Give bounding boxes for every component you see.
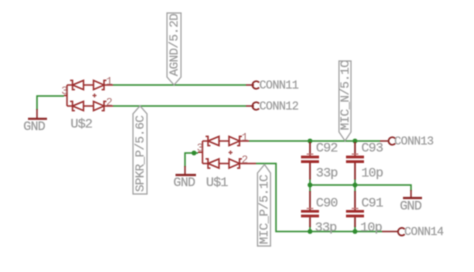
diode array U$2: [64, 80, 113, 110]
svg-text:U$1: U$1: [206, 175, 228, 190]
capacitor C93: [346, 140, 384, 180]
connector pin CONN13: [380, 135, 434, 149]
node junction on U$1 GND wire: [192, 151, 197, 156]
svg-text:10p: 10p: [360, 220, 382, 235]
wire net MIC_N (U$1 pin1 to CONN13): [249, 140, 380, 142]
ground symbol GND (right): [400, 190, 422, 213]
wire cap column C91 stubs: [354, 185, 356, 192]
svg-text:GND: GND: [173, 175, 195, 190]
wire U$1 pin2 red extension: [249, 163, 256, 165]
svg-text:C92: C92: [316, 140, 338, 155]
svg-text:GND: GND: [23, 119, 45, 134]
svg-text:C91: C91: [361, 195, 383, 210]
node junction C93 bottom: [353, 183, 358, 188]
wire cap column C93 stub: [354, 179, 356, 185]
ground symbol GND (U$2): [23, 109, 47, 134]
net flag SPKR_P/5.6C: [133, 106, 147, 194]
svg-text:MIC_P/5.1C: MIC_P/5.1C: [257, 175, 271, 244]
svg-text:3: 3: [61, 86, 68, 98]
node junction C90 bottom: [308, 229, 313, 234]
svg-text:1: 1: [106, 77, 113, 89]
net flag MIC_N/5.1C: [338, 61, 352, 141]
capacitor C91: [346, 191, 384, 235]
node junction C91 bottom: [353, 229, 358, 234]
node junction C92 top: [308, 139, 313, 144]
net flag AGND/5.2D: [167, 13, 181, 85]
svg-text:U$2: U$2: [71, 117, 93, 132]
svg-text:CONN14: CONN14: [404, 225, 444, 239]
wire cap column C92 stub: [309, 179, 311, 185]
svg-text:C90: C90: [316, 195, 338, 210]
diode array U$1: [198, 136, 249, 168]
ground symbol GND (U$1): [173, 166, 196, 190]
wire cap column C90 stubs: [309, 185, 311, 192]
svg-text:10p: 10p: [361, 166, 383, 181]
svg-text:MIC_N/5.1C: MIC_N/5.1C: [338, 61, 352, 130]
wire U$2 pin3 to GND: [37, 96, 64, 110]
svg-text:CONN12: CONN12: [259, 100, 299, 114]
svg-text:33p: 33p: [316, 166, 338, 181]
svg-text:2: 2: [106, 98, 113, 110]
wire U$1 pin3 to GND: [185, 153, 198, 167]
svg-text:2: 2: [242, 155, 249, 167]
svg-text:3: 3: [197, 143, 204, 155]
svg-text:1: 1: [242, 133, 249, 145]
connector pin CONN11: [246, 79, 299, 93]
capacitor C90: [301, 191, 338, 235]
svg-text:SPKR_P/5.6C: SPKR_P/5.6C: [133, 116, 147, 192]
node junction C93 top: [353, 139, 358, 144]
connector pin CONN14: [382, 225, 444, 239]
svg-text:33p: 33p: [315, 220, 337, 235]
svg-text:CONN13: CONN13: [394, 135, 434, 149]
svg-text:AGND/5.2D: AGND/5.2D: [167, 14, 181, 76]
node junction C92 bottom: [308, 183, 313, 188]
wire net CONN11 (U$2 pin1 to CONN11): [113, 84, 246, 86]
wire net CONN12 (U$2 pin2 to CONN12): [113, 105, 246, 107]
connector pin CONN12: [246, 100, 299, 114]
svg-text:CONN11: CONN11: [259, 79, 299, 93]
wire mid net (caps to GND): [310, 185, 411, 191]
net flag MIC_P/5.1C: [257, 165, 271, 247]
capacitor C92: [301, 140, 338, 180]
svg-text:GND: GND: [400, 198, 422, 213]
wire net MIC_P (U$1 pin2 to CONN14): [256, 164, 382, 232]
svg-text:C93: C93: [361, 140, 383, 155]
